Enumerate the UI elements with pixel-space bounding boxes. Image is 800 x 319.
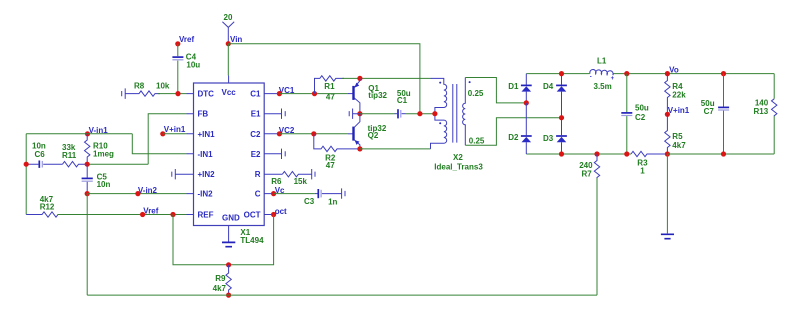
svg-text:R: R [255, 170, 261, 179]
resistor R4 22k [665, 74, 686, 115]
node C5 bottom junction [85, 191, 90, 196]
svg-text:22k: 22k [672, 91, 686, 100]
pin stubs left side [187, 94, 194, 215]
svg-text:47: 47 [326, 161, 335, 170]
capacitor C3 1n [304, 188, 345, 206]
wire V+in1 to +IN1 pin [163, 133, 187, 135]
svg-text:tip32: tip32 [368, 91, 387, 100]
svg-text:R12: R12 [40, 203, 55, 212]
svg-text:R11: R11 [62, 151, 77, 160]
node V+in1 [160, 125, 186, 136]
svg-text:FB: FB [198, 110, 209, 119]
X1 designator label [240, 228, 264, 245]
svg-text:C2: C2 [635, 113, 646, 122]
svg-text:oct: oct [275, 207, 287, 216]
inductor L1 3.5m [590, 57, 615, 91]
pin E2 unconnected [264, 149, 285, 159]
core [453, 84, 457, 143]
svg-text:OCT: OCT [244, 211, 261, 220]
svg-text:V-in2: V-in2 [138, 186, 158, 195]
svg-text:R1: R1 [324, 82, 335, 91]
svg-text:Vcc: Vcc [222, 88, 237, 97]
diode D1 [508, 74, 532, 103]
node oct [271, 207, 287, 217]
node Vin column joint [417, 111, 422, 116]
svg-text:V+in1: V+in1 [164, 125, 186, 134]
node R10/R11/C5/FB junction [85, 162, 90, 167]
resistor R7 240 [579, 154, 599, 179]
svg-text:REF: REF [198, 211, 214, 220]
transformer X2 Ideal_Trans3 [431, 78, 485, 172]
transistor Q2 tip32 [354, 114, 387, 149]
node D3 bottom [559, 151, 564, 156]
svg-text:C6: C6 [35, 150, 46, 159]
svg-text:20: 20 [224, 13, 233, 22]
node Q1 collector / Q2 collector [357, 111, 362, 116]
svg-text:-IN2: -IN2 [198, 190, 214, 199]
node R2 junction [311, 131, 316, 136]
capacitor C6 10n [26, 142, 62, 168]
svg-text:R13: R13 [754, 107, 769, 116]
wire FB net [87, 114, 186, 165]
svg-text:1: 1 [640, 167, 645, 176]
node R9 bottom [226, 293, 231, 298]
node Vref lower [140, 207, 159, 217]
svg-text:R8: R8 [134, 82, 145, 91]
wire secondary top to D1/D2 junction [465, 78, 526, 103]
capacitor C4 10u [172, 53, 200, 70]
svg-text:15k: 15k [294, 177, 308, 186]
wire R8 to DTC pin [158, 93, 187, 95]
wire rectifier top rail [526, 73, 774, 75]
wire C1 to centre tap [406, 113, 435, 115]
node Q2 emitter rail [357, 146, 362, 151]
svg-text:Q2: Q2 [368, 131, 379, 140]
svg-text:+: + [611, 76, 615, 82]
svg-text:10k: 10k [156, 82, 170, 91]
svg-text:R7: R7 [581, 170, 592, 179]
primary bottom winding [431, 114, 447, 149]
svg-text:0.25: 0.25 [469, 136, 485, 145]
wire Q2 rail to transformer bottom [360, 148, 431, 150]
svg-text:E2: E2 [251, 150, 261, 159]
wire ground drop [666, 154, 668, 233]
resistor R11 33k [62, 143, 87, 167]
svg-text:-: - [590, 74, 592, 80]
wire secondary bottom to D4/D3 junction [465, 118, 561, 146]
resistor R3 1 [631, 151, 667, 175]
svg-text:+IN1: +IN1 [198, 130, 216, 139]
resistor R8 10k [122, 82, 170, 99]
wire bottom bus [87, 177, 597, 295]
svg-text:4k7: 4k7 [672, 141, 686, 150]
svg-text:50u: 50u [635, 103, 649, 112]
svg-text:Vo: Vo [669, 65, 679, 74]
diode D3 [543, 118, 567, 154]
svg-text:R6: R6 [271, 177, 282, 186]
pin GND stub [228, 226, 230, 242]
svg-text:R4: R4 [672, 82, 683, 91]
resistor R10 1meg [85, 134, 115, 164]
svg-text:D3: D3 [543, 134, 554, 143]
capacitor C5 10n [82, 164, 111, 193]
svg-text:C2: C2 [250, 130, 261, 139]
capacitor C1 50u [395, 89, 411, 119]
secondary winding [463, 78, 466, 146]
node C2 bottom / R3 left [624, 151, 629, 156]
resistor R12 4k7 [26, 195, 60, 217]
node Vo [665, 65, 679, 76]
resistor R5 4k7 [665, 114, 686, 154]
node R9 top [226, 262, 231, 267]
svg-text:4k7: 4k7 [213, 284, 227, 293]
node Vref top [175, 35, 194, 47]
svg-text:C: C [255, 190, 261, 199]
svg-text:C1: C1 [397, 96, 408, 105]
node Vc [271, 186, 285, 196]
node C6 junction [24, 162, 29, 167]
pin +IN2 unconnected [172, 169, 194, 179]
svg-text:D1: D1 [508, 82, 519, 91]
svg-text:+IN2: +IN2 [198, 170, 216, 179]
svg-text:R5: R5 [672, 132, 683, 141]
svg-text:TL494: TL494 [240, 236, 264, 245]
diode D2 [508, 103, 532, 154]
resistor R6 15k [271, 169, 315, 186]
node Q1 emitter rail [357, 76, 362, 81]
ground output [661, 234, 674, 238]
resistor R13 140 [754, 74, 777, 154]
wire Vc row [274, 193, 315, 195]
svg-text:X2: X2 [453, 153, 463, 162]
svg-text:GND: GND [222, 214, 240, 223]
svg-text:1meg: 1meg [93, 150, 114, 159]
svg-text:0.25: 0.25 [468, 89, 484, 98]
svg-text:D4: D4 [543, 82, 554, 91]
wire V-in1 row and left rail [26, 134, 186, 215]
svg-text:-IN1: -IN1 [198, 150, 214, 159]
diode D4 [543, 74, 567, 118]
pin E1 unconnected [264, 109, 285, 119]
node VC2 [277, 126, 295, 136]
svg-text:L1: L1 [597, 57, 607, 66]
node VC1 [277, 86, 295, 96]
svg-text:Ideal_Trans3: Ideal_Trans3 [434, 163, 483, 172]
resistor R2 47 [314, 134, 360, 170]
node rail D4 [559, 71, 564, 76]
svg-text:C7: C7 [704, 107, 715, 116]
wire R1 to transformer top [342, 77, 431, 79]
pin stubs right side [264, 94, 282, 215]
node R7 top [594, 151, 599, 156]
resistor R1 47 [315, 76, 345, 102]
svg-text:C1: C1 [250, 90, 261, 99]
primary top winding [431, 78, 447, 113]
wire OCT feedback loop [173, 215, 274, 265]
wire VC1 row to Q1 base [279, 93, 348, 95]
svg-text:D2: D2 [508, 133, 519, 142]
op-amp controller U1 TL494 box [194, 83, 265, 226]
node D1/D2 junction [524, 100, 529, 105]
wire C5 node down to bottom bus [86, 194, 88, 296]
svg-text:E1: E1 [251, 110, 261, 119]
svg-text:Vref: Vref [143, 207, 158, 216]
svg-text:10n: 10n [97, 180, 111, 189]
node C7 top [721, 71, 726, 76]
node Vin [226, 35, 243, 46]
svg-text:3.5m: 3.5m [594, 82, 612, 91]
svg-text:Vref: Vref [179, 35, 194, 44]
node R3/R5/ground junction [665, 151, 670, 156]
pin Vcc stub [228, 76, 230, 84]
ground below X1 [222, 242, 235, 246]
node D4/D3 junction [559, 115, 564, 120]
node R1 junction [312, 91, 317, 96]
wire Vin rail to transformer centre tap column [228, 44, 420, 114]
wire Vin down to Vcc pin [227, 44, 229, 76]
svg-text:1n: 1n [328, 198, 337, 207]
wire -IN2 row [87, 193, 186, 195]
node C2 top [624, 71, 629, 76]
node V-in2 [135, 186, 157, 196]
svg-text:C3: C3 [304, 197, 315, 206]
capacitor C7 50u [701, 74, 729, 154]
node V+in1 right [665, 106, 690, 117]
svg-text:Vin: Vin [230, 35, 242, 44]
svg-text:47: 47 [326, 93, 335, 102]
capacitor C2 50u [621, 74, 649, 154]
unconnected emitter stub E1 side [349, 109, 360, 119]
transistor Q1 tip32 [354, 78, 388, 113]
wire bottom rail right [667, 153, 774, 155]
svg-text:V+in1: V+in1 [668, 106, 690, 115]
node V-in1 [85, 126, 108, 136]
svg-text:R9: R9 [215, 274, 226, 283]
node C7 bottom [721, 151, 726, 156]
wire Vref row to REF pin [58, 214, 187, 216]
wire mid node to C1 [360, 113, 395, 115]
wire VC2 row to Q2 base [279, 133, 348, 135]
resistor R9 4k7 [213, 265, 232, 295]
svg-text:10u: 10u [186, 61, 200, 70]
node centre tap [432, 111, 437, 116]
wire rectifier bottom rail [526, 153, 631, 155]
wire C4 to DTC junction [177, 61, 179, 94]
svg-text:DTC: DTC [198, 90, 215, 99]
wire Vref to C4 [177, 44, 179, 56]
port 20 [222, 13, 234, 44]
polarity dots [439, 82, 441, 84]
node DTC junction [175, 91, 180, 96]
node REF junction [170, 212, 175, 217]
